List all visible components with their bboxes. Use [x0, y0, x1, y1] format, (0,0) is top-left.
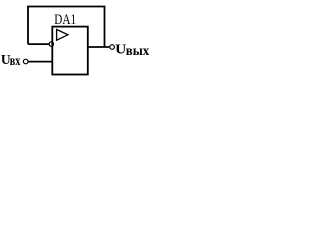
svg-text:вых: вых: [126, 44, 149, 59]
wire output: [88, 46, 109, 48]
op-amp DA1 body: [52, 27, 88, 75]
input terminal circle: [23, 59, 28, 64]
op-amp triangle symbol: [57, 29, 68, 40]
svg-text:вх: вх: [10, 54, 21, 69]
svg-text:U: U: [115, 43, 126, 58]
wire input: [28, 61, 52, 63]
wire feedback loop from output node to inverting input: [28, 7, 105, 48]
svg-text:DA1: DA1: [54, 12, 76, 28]
output terminal circle: [110, 45, 115, 50]
wire inverting input segment: [28, 43, 49, 45]
inversion bubble on inverting input: [49, 42, 53, 46]
